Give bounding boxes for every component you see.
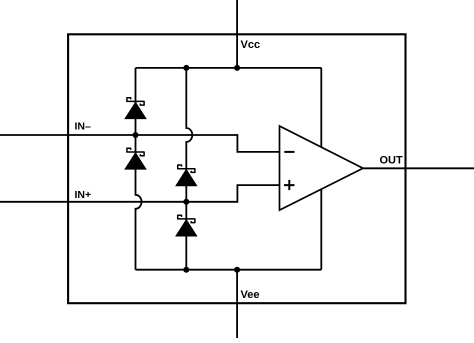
junction dot: left column to IN- (133, 132, 139, 138)
svg-text:IN+: IN+ (75, 189, 92, 201)
svg-text:Vcc: Vcc (241, 39, 261, 51)
wire: op-amp supply column (right) (320, 68, 322, 270)
wire: IN+ input with step to non-inverting input (0, 185, 280, 202)
svg-text:Vee: Vee (241, 289, 260, 301)
op-amp non-inverting input plus sign (284, 180, 295, 190)
wire: Vee bottom rail (136, 269, 322, 271)
Vcc supply wire (top) (236, 0, 238, 68)
op-amp inverting input minus sign (284, 151, 294, 153)
diode D4 (middle column, lower zener) (176, 215, 197, 236)
outer IC boundary box (68, 34, 405, 303)
wire: left column with hop over IN+ (136, 68, 142, 270)
junction dot: middle column to IN+ (183, 199, 189, 205)
junction dot: middle column to Vcc rail (183, 65, 189, 71)
Vee supply wire (bottom) (236, 270, 238, 338)
diode D3 (middle column, upper zener) (176, 165, 197, 186)
diode D2 (left column, lower zener) (125, 148, 146, 169)
junction dot: middle column to Vee rail (183, 267, 189, 273)
wire: IN- input with step to inverting input (0, 135, 280, 152)
op-amp U1 triangle (280, 126, 364, 210)
svg-text:IN–: IN– (75, 120, 92, 132)
wire: Vcc top rail (136, 67, 322, 69)
wire: middle column with hop over IN- (186, 68, 192, 270)
junction dot: Vcc wire to top rail (234, 65, 240, 71)
diode D1 (left column, upper zener) (125, 98, 146, 119)
junction dot: Vee wire to bottom rail (234, 267, 240, 273)
svg-text:OUT: OUT (380, 155, 404, 167)
wire: output (363, 167, 474, 169)
